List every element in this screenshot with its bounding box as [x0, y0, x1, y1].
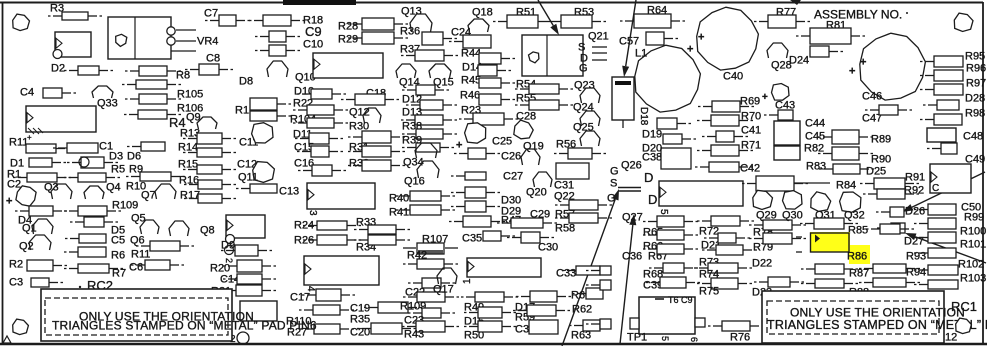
svg-text:C29: C29 — [530, 209, 550, 221]
callout arrow to L2 — [622, 0, 636, 77]
diode D10 — [297, 89, 346, 99]
resistor R13 — [183, 133, 236, 144]
lead R84 long — [794, 182, 830, 184]
diode D7 — [67, 157, 118, 168]
resistor R39 — [402, 143, 454, 152]
resistor R96 — [920, 70, 963, 81]
IC A1 — [467, 258, 541, 277]
svg-text:R75: R75 — [699, 286, 719, 298]
resistor R34 — [354, 235, 410, 245]
resistor R92 — [863, 189, 919, 199]
resistor R27 — [300, 324, 354, 334]
resistor R81 — [796, 28, 865, 44]
svg-text:C33: C33 — [556, 268, 576, 280]
note box bottom-left — [41, 289, 232, 341]
svg-text:R82: R82 — [804, 143, 824, 155]
resistor R58 — [555, 213, 612, 223]
resistor row y142 — [127, 142, 165, 151]
resistor R44 — [479, 53, 515, 64]
svg-text:C3: C3 — [9, 277, 23, 289]
svg-text:R62: R62 — [572, 304, 592, 316]
resistor R77 — [754, 15, 810, 28]
resistor R69 — [698, 101, 754, 112]
capacitor col mid b — [451, 201, 500, 212]
resistor R21 — [222, 285, 276, 296]
capacitor C25 — [465, 123, 486, 143]
capacitor C9 — [255, 31, 300, 42]
inductor L1 — [635, 45, 701, 112]
svg-text:C13: C13 — [279, 186, 299, 198]
resistor R54 — [515, 84, 573, 94]
svg-text:R8: R8 — [176, 70, 190, 82]
svg-text:Q12: Q12 — [349, 107, 370, 119]
svg-text:+: + — [860, 57, 866, 69]
pin line Q21 d — [592, 52, 607, 54]
pin-1 circle U2 — [53, 50, 62, 59]
pin-1 circle U7 — [226, 235, 235, 244]
transistor Q19 — [521, 149, 540, 165]
resistor R23 — [459, 113, 518, 125]
resistor R100 — [914, 232, 956, 243]
svg-text:R45: R45 — [461, 75, 481, 87]
resistor R49 — [461, 292, 518, 302]
svg-text:Q8: Q8 — [200, 225, 215, 237]
resistor R3 — [48, 12, 102, 20]
transistor Q31 outline — [811, 192, 831, 212]
svg-text:TRIANGLES STAMPED ON “METAL” P: TRIANGLES STAMPED ON “METAL” PIN — [767, 318, 987, 332]
resistor R63 — [569, 320, 600, 331]
resistor R68 — [649, 263, 698, 273]
resistor R22 — [293, 105, 348, 115]
IC U2 — [55, 32, 91, 57]
resistor R51 — [493, 15, 552, 28]
svg-text:R6: R6 — [111, 250, 125, 262]
resistor R67 body — [643, 244, 698, 254]
transistor Q9 — [197, 117, 217, 129]
svg-text:+: + — [849, 66, 855, 78]
resistor R47 — [497, 218, 557, 228]
part left edge c — [586, 319, 611, 329]
resistor R98 — [920, 114, 962, 125]
svg-text:R44: R44 — [461, 48, 481, 60]
svg-text:D2: D2 — [51, 63, 65, 75]
svg-text:R94: R94 — [906, 267, 926, 279]
transistor Q10 — [267, 61, 288, 77]
diode D26 body — [876, 207, 904, 217]
resistor R108 — [64, 206, 121, 216]
svg-text:C8: C8 — [206, 53, 220, 65]
resistor under R108 — [70, 217, 118, 227]
capacitor C5 body — [65, 234, 106, 243]
resistor R20 — [223, 260, 276, 272]
pin circle K1 a — [167, 27, 175, 35]
resistor R24 — [303, 221, 361, 230]
resistor R18 — [249, 15, 305, 26]
transistor Q34 — [415, 143, 437, 158]
svg-text:R101: R101 — [960, 239, 986, 251]
resistor R8 — [125, 66, 181, 76]
capacitor C43 outline — [772, 84, 790, 101]
capacitor C57 — [646, 32, 678, 45]
pin line K1 1 — [176, 29, 196, 31]
svg-text:Q17: Q17 — [433, 284, 454, 296]
resistor R31 — [348, 146, 405, 157]
transistor Q29 outline — [753, 190, 773, 209]
resistor R94 — [859, 278, 920, 287]
svg-text:D18: D18 — [638, 107, 649, 126]
part left edge a — [586, 266, 611, 275]
transistor Q24 — [580, 111, 600, 126]
transistor Q3 — [51, 184, 72, 199]
resistor R10 body — [126, 172, 185, 181]
diode D12 — [406, 100, 457, 110]
svg-text:C45: C45 — [805, 131, 825, 143]
svg-text:3: 3 — [307, 210, 318, 216]
pin circle K1 b — [167, 37, 175, 45]
svg-text:C30: C30 — [538, 242, 558, 254]
capacitor C22 second — [403, 292, 459, 302]
svg-text:R102: R102 — [958, 259, 984, 271]
capacitor C6 — [131, 260, 184, 270]
transistor Q4 — [84, 186, 104, 199]
svg-text:D19: D19 — [642, 129, 662, 141]
capacitor C45 body — [774, 146, 800, 160]
svg-text:Q25: Q25 — [573, 122, 594, 134]
transistor Q25 — [580, 131, 600, 146]
svg-text:C10: C10 — [303, 39, 323, 51]
resistor R46 — [479, 94, 515, 105]
svg-text:R28: R28 — [338, 21, 358, 33]
svg-text:Q34: Q34 — [403, 157, 424, 169]
capacitor R12a — [250, 98, 291, 110]
resistor R86 body — [811, 233, 850, 252]
diode D28 — [923, 100, 959, 110]
svg-text:S: S — [610, 178, 617, 190]
svg-text:+: + — [762, 92, 768, 103]
svg-text:Q27: Q27 — [622, 212, 643, 224]
svg-text:D22: D22 — [752, 258, 772, 270]
svg-text:Q6: Q6 — [130, 235, 145, 247]
svg-text:+: + — [6, 196, 12, 208]
resistor R95 — [920, 56, 963, 67]
resistor R79 — [749, 233, 806, 244]
svg-text:R42: R42 — [407, 250, 427, 262]
resistor top of A1 col — [403, 259, 458, 269]
svg-text:C46: C46 — [862, 91, 882, 103]
resistor R32 — [348, 160, 405, 171]
capacitor C17 — [302, 289, 355, 301]
resistor R7 — [64, 264, 123, 273]
svg-text:Q32: Q32 — [844, 210, 865, 222]
resistor between Q14 Q15 — [402, 85, 449, 95]
board outline right edge — [982, 2, 984, 344]
transistor Q16 — [417, 161, 439, 178]
svg-text:C36: C36 — [622, 251, 642, 263]
divider K1 — [134, 17, 136, 59]
svg-text:R29: R29 — [338, 34, 358, 46]
capacitor C40 — [697, 7, 759, 70]
svg-text:C9: C9 — [305, 24, 322, 39]
svg-text:D28: D28 — [965, 93, 985, 105]
transformer T1 — [630, 297, 705, 334]
wire lead left of R86 — [796, 236, 802, 238]
svg-text:R41: R41 — [389, 207, 409, 219]
svg-text:D25: D25 — [866, 166, 886, 178]
diode D1 — [29, 158, 66, 167]
pin line K1 3 — [171, 50, 196, 52]
capacitor C23 — [402, 321, 459, 332]
callout arrowhead top-right — [790, 0, 801, 5]
hatch U6 — [28, 128, 43, 134]
diode D18 body — [657, 118, 691, 129]
callout arrow to D27 body — [905, 233, 986, 263]
resistor R78 — [749, 220, 806, 230]
capacitor C3 — [31, 278, 63, 287]
svg-text:R2: R2 — [9, 259, 23, 271]
capacitor C47 — [865, 105, 912, 115]
capacitor C10 — [255, 45, 300, 56]
svg-text:TP1: TP1 — [627, 332, 647, 344]
svg-text:Q18: Q18 — [472, 7, 493, 19]
transistor Q5 — [140, 220, 159, 234]
diode D27 body — [877, 223, 905, 233]
svg-text:R76: R76 — [730, 332, 750, 344]
svg-text:R86: R86 — [847, 251, 867, 263]
diode D4 — [15, 206, 67, 216]
svg-text:C6: C6 — [129, 262, 143, 274]
transistor Q20 — [533, 172, 552, 187]
diode D9 body — [221, 245, 272, 256]
svg-text:+: + — [456, 140, 462, 152]
svg-text:C48: C48 — [963, 131, 983, 143]
svg-text:+: + — [687, 44, 693, 56]
transistor Q12 — [363, 108, 381, 123]
svg-text:Q21: Q21 — [588, 31, 609, 43]
svg-text:C17: C17 — [290, 292, 310, 304]
pin line Q21 g — [592, 59, 607, 61]
capacitor below R8 — [122, 80, 181, 89]
pad circle D7 — [79, 157, 89, 167]
board outline bottom edge — [0, 343, 987, 346]
resistor under Q31 — [800, 218, 858, 229]
resistor R74 — [697, 278, 752, 289]
svg-text:C25: C25 — [492, 136, 512, 148]
svg-text:2: 2 — [224, 258, 234, 263]
resistor R11 — [26, 144, 70, 153]
capacitor C24 — [449, 35, 491, 48]
transistor pad bottom center — [237, 332, 249, 344]
capacitor C35 — [483, 231, 515, 241]
svg-text:R96: R96 — [966, 63, 986, 75]
capacitor C18 — [341, 94, 399, 105]
resistor R55 — [515, 100, 573, 110]
resistor R85 — [866, 224, 914, 234]
relay K1 — [108, 17, 171, 59]
svg-text:Q16: Q16 — [404, 176, 425, 188]
wire double lines at S — [618, 187, 641, 189]
svg-text:C27: C27 — [503, 171, 523, 183]
IC U5 — [659, 181, 743, 206]
svg-text:Q4: Q4 — [106, 182, 121, 194]
svg-text:D26: D26 — [905, 206, 925, 218]
capacitor R12b — [250, 111, 291, 121]
resistor R103 — [914, 280, 958, 289]
svg-text:D24: D24 — [789, 55, 809, 67]
transistor Q17 — [437, 268, 457, 284]
resistor R40 — [396, 191, 455, 201]
diode D14 — [478, 65, 511, 76]
svg-text:VR4: VR4 — [197, 36, 218, 48]
transistor Q15 — [429, 64, 451, 78]
pad inside K1 — [116, 34, 127, 46]
transistor Q30 outline — [783, 191, 803, 210]
resistor R109 body — [408, 308, 455, 318]
capacitor C43 — [764, 110, 793, 120]
board outline top edge — [0, 2, 983, 4]
capacitor C41 — [702, 131, 748, 142]
capacitor C26 — [454, 148, 500, 159]
resistor R28 — [348, 18, 408, 30]
resistor R99 — [914, 218, 956, 229]
svg-text:C7: C7 — [204, 8, 218, 20]
resistor R17 — [184, 194, 236, 203]
svg-text:TRIANGLES STAMPED ON “METAL” P: TRIANGLES STAMPED ON “METAL” PAD PIN6 — [52, 318, 317, 332]
callout arrow to U9 — [538, 0, 559, 35]
resistor R2 — [27, 260, 67, 271]
capacitor col mid a — [451, 187, 500, 198]
svg-text:Q13: Q13 — [401, 6, 422, 18]
pin line K1 2 — [176, 40, 196, 42]
transistor Q1 — [32, 219, 53, 234]
diode D21 — [704, 233, 750, 243]
svg-text:R103: R103 — [960, 273, 986, 285]
diode D11 — [295, 133, 343, 144]
svg-text:D12: D12 — [402, 94, 422, 106]
pin line Q21 s — [592, 46, 607, 48]
resistor R59 — [513, 305, 570, 316]
capacitor C38 body — [661, 148, 691, 169]
capacitor C15 — [297, 146, 343, 157]
dot before RC2 — [79, 286, 81, 288]
transistor Q8 outline — [169, 221, 189, 236]
IC U9 — [313, 53, 383, 78]
transistor Q32 outline — [840, 192, 861, 212]
IC U8 — [930, 164, 971, 193]
capacitor C48 body — [927, 128, 956, 142]
svg-text:5: 5 — [660, 336, 670, 341]
highlight over R86 — [810, 232, 870, 264]
svg-text:C5: C5 — [111, 235, 125, 247]
svg-text:R36: R36 — [400, 26, 420, 38]
diode D15 — [464, 307, 516, 318]
resistor R64 — [620, 14, 685, 28]
svg-text:Q11: Q11 — [238, 172, 258, 184]
svg-text:+: + — [698, 32, 704, 44]
svg-text:R17: R17 — [180, 190, 200, 202]
svg-text:D6: D6 — [127, 151, 141, 163]
capacitor under R81 — [810, 46, 843, 57]
resistor R35 — [357, 323, 416, 334]
svg-text:Q2: Q2 — [19, 241, 34, 253]
diode D25 — [819, 164, 874, 174]
resistor R105 — [125, 94, 181, 104]
svg-text:R83: R83 — [806, 161, 826, 173]
IC U3 — [307, 183, 375, 209]
resistor R90 — [818, 147, 873, 160]
svg-text:R90: R90 — [871, 154, 891, 166]
svg-text:1: 1 — [462, 278, 473, 284]
resistor R91 — [860, 178, 919, 189]
capacitor C22 — [408, 278, 455, 288]
resistor R1 — [13, 173, 71, 182]
resistor R101 — [914, 248, 956, 258]
transistor Q13 — [410, 14, 432, 32]
resistor R33 — [354, 225, 410, 234]
resistor R53 — [547, 15, 606, 28]
resistor R29 — [348, 32, 408, 44]
resistor R104 — [293, 118, 348, 128]
svg-text:Q30: Q30 — [782, 210, 803, 222]
transistor Q14 — [396, 64, 416, 78]
svg-text:D: D — [648, 192, 657, 207]
capacitor C28 — [514, 120, 533, 139]
callout arrow to node S — [562, 189, 619, 346]
resistor R88 — [801, 279, 858, 288]
resistor R56 — [554, 148, 606, 159]
resistor R73 — [694, 263, 752, 273]
part above Q22 — [556, 163, 589, 179]
resistor R107 body — [403, 243, 458, 254]
capacitor C2 — [16, 186, 36, 206]
resistor R36 — [422, 32, 457, 45]
svg-text:C4: C4 — [20, 87, 34, 99]
mounting hole bottom-right — [956, 318, 972, 334]
svg-text:R98: R98 — [965, 108, 985, 120]
svg-text:Q26: Q26 — [621, 160, 642, 172]
capacitor C11 outline — [252, 123, 273, 143]
svg-text:R85: R85 — [848, 225, 868, 237]
resistor R26 — [303, 235, 361, 245]
capacitor C39 — [646, 277, 700, 288]
mounting hole top-right — [954, 13, 973, 31]
pad inside Q21 block — [529, 52, 539, 63]
resistor R72 — [697, 216, 754, 226]
svg-text:D: D — [644, 170, 653, 185]
note box bottom-right — [762, 291, 944, 343]
resistor under D21 — [702, 245, 757, 255]
capacitor C16 — [298, 165, 346, 176]
transistor Q23 — [580, 88, 600, 103]
svg-text:12: 12 — [945, 332, 957, 344]
mounting hole top-left — [13, 14, 30, 31]
resistor R70 — [697, 115, 753, 126]
resistor R15 — [183, 165, 236, 174]
capacitor C46 — [860, 33, 926, 100]
resistor R37 — [401, 50, 458, 61]
svg-text:C2: C2 — [7, 179, 21, 191]
resistor R65 — [643, 216, 698, 227]
transistor Q21 block — [522, 35, 583, 76]
svg-text:R35: R35 — [350, 314, 370, 326]
svg-text:R84: R84 — [836, 180, 856, 192]
resistor R60 — [572, 288, 603, 299]
resistor R16 — [184, 180, 236, 189]
svg-text:R15: R15 — [178, 159, 198, 171]
transistor Q18 — [468, 19, 489, 32]
transistor Q28 — [767, 43, 788, 58]
svg-text:R89: R89 — [871, 134, 891, 146]
svg-text:C16: C16 — [294, 158, 314, 170]
